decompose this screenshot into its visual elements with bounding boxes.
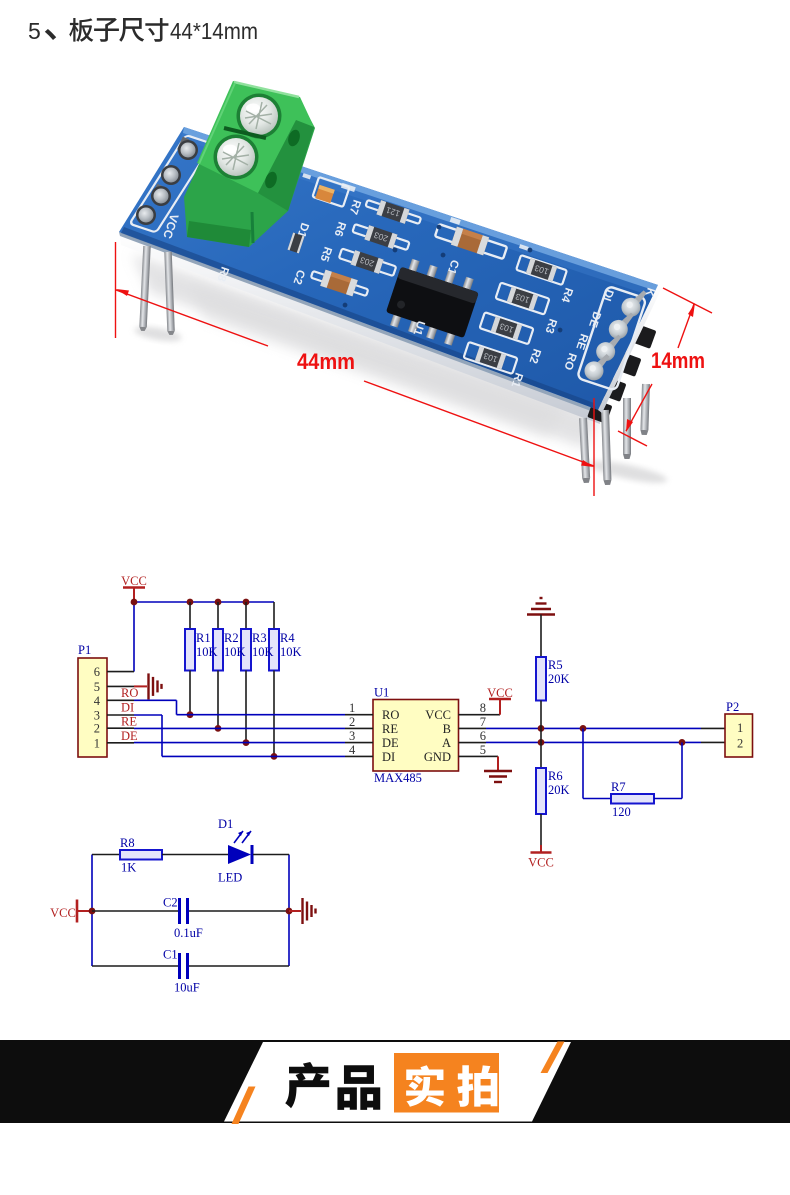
svg-text:VCC: VCC: [121, 574, 147, 588]
svg-text:4: 4: [94, 694, 101, 708]
svg-text:VCC: VCC: [50, 906, 76, 920]
svg-text:DI: DI: [121, 701, 134, 715]
svg-text:10K: 10K: [280, 645, 302, 659]
svg-text:R1: R1: [196, 631, 211, 645]
svg-text:MAX485: MAX485: [374, 771, 422, 785]
svg-text:DI: DI: [382, 750, 395, 764]
svg-text:10K: 10K: [224, 645, 246, 659]
svg-text:VCC: VCC: [528, 856, 554, 870]
svg-text:P1: P1: [78, 643, 91, 657]
svg-text:6: 6: [480, 729, 486, 743]
svg-text:C2: C2: [163, 896, 178, 910]
svg-text:1: 1: [737, 721, 743, 735]
svg-text:1: 1: [94, 736, 100, 750]
svg-text:6: 6: [94, 665, 100, 679]
svg-text:0.1uF: 0.1uF: [174, 926, 203, 940]
svg-text:7: 7: [480, 715, 486, 729]
svg-text:R3: R3: [252, 631, 267, 645]
svg-text:5: 5: [94, 680, 100, 694]
svg-text:1: 1: [349, 701, 355, 715]
svg-text:5: 5: [480, 743, 486, 757]
svg-text:4: 4: [349, 743, 356, 757]
svg-text:VCC: VCC: [487, 686, 513, 700]
svg-text:10uF: 10uF: [174, 981, 200, 995]
svg-text:LED: LED: [218, 871, 242, 885]
svg-text:R5: R5: [548, 658, 563, 672]
svg-text:A: A: [442, 736, 451, 750]
svg-text:GND: GND: [424, 750, 451, 764]
svg-text:VCC: VCC: [425, 708, 451, 722]
svg-text:44*14mm: 44*14mm: [170, 18, 258, 44]
svg-text:R6: R6: [548, 769, 563, 783]
svg-text:2: 2: [737, 737, 743, 751]
svg-text:8: 8: [480, 701, 486, 715]
svg-text:U1: U1: [374, 686, 389, 700]
svg-text:B: B: [443, 722, 451, 736]
svg-text:2: 2: [349, 715, 355, 729]
svg-text:10K: 10K: [252, 645, 274, 659]
svg-text:3: 3: [349, 729, 355, 743]
svg-text:2: 2: [94, 722, 100, 736]
svg-text:120: 120: [612, 805, 631, 819]
svg-text:R8: R8: [120, 836, 135, 850]
svg-text:RE: RE: [382, 722, 398, 736]
svg-text:RO: RO: [382, 708, 399, 722]
svg-text:DE: DE: [382, 736, 399, 750]
svg-text:P2: P2: [726, 700, 739, 714]
svg-text:D1: D1: [218, 817, 233, 831]
svg-text:20K: 20K: [548, 672, 570, 686]
svg-text:3: 3: [94, 709, 100, 723]
svg-text:10K: 10K: [196, 645, 218, 659]
svg-text:14mm: 14mm: [651, 348, 705, 373]
svg-text:1K: 1K: [121, 861, 136, 875]
svg-text:DE: DE: [121, 729, 138, 743]
svg-text:RE: RE: [121, 715, 137, 729]
svg-text:R7: R7: [611, 780, 626, 794]
svg-text:R2: R2: [224, 631, 239, 645]
svg-text:5: 5: [28, 18, 41, 44]
svg-text:C1: C1: [163, 948, 178, 962]
svg-text:20K: 20K: [548, 783, 570, 797]
svg-text:R4: R4: [280, 631, 295, 645]
svg-text:RO: RO: [121, 686, 138, 700]
svg-text:44mm: 44mm: [297, 349, 355, 374]
